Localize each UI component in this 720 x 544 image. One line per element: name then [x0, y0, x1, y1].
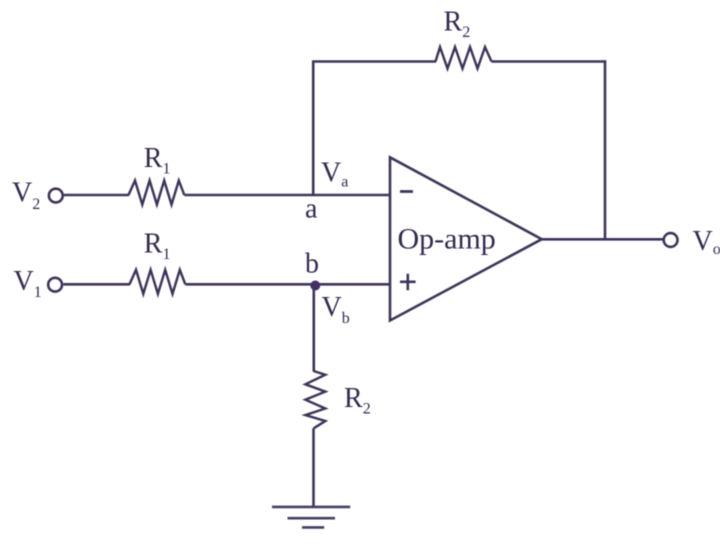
svg-text:V1: V1 [14, 266, 42, 301]
resistor R1 (top) [129, 181, 185, 205]
wire: R1 to non-inverting input [185, 283, 390, 286]
wire: node a up to feedback (vertical) [312, 62, 315, 196]
resistor R1 (bottom) [130, 270, 186, 294]
resistor R2 (feedback) [436, 47, 492, 69]
non-inverting input plus sign [400, 274, 416, 291]
wire: R2 to top-right corner [492, 60, 607, 63]
wire: node b down to R2 (vertical) [312, 286, 315, 372]
svg-text:a: a [305, 194, 318, 225]
wire: top-left horizontal to R2 [312, 60, 436, 63]
output wire [542, 238, 663, 241]
terminal V2 [49, 189, 63, 203]
ground [272, 507, 350, 528]
terminal Vo [664, 233, 678, 247]
wire: feedback down to output node (vertical) [604, 60, 607, 240]
inverting input minus sign [400, 190, 413, 193]
svg-text:R2: R2 [444, 7, 471, 42]
svg-text:V2: V2 [12, 178, 40, 214]
node b junction dot [310, 281, 320, 291]
svg-text:Vo: Vo [693, 226, 720, 258]
svg-text:R2: R2 [344, 383, 371, 418]
wire: V2 terminal to R1 [64, 194, 129, 197]
terminal V1 [48, 278, 62, 292]
wire: V1 terminal to R1 [63, 283, 130, 286]
svg-text:b: b [305, 249, 319, 280]
svg-text:R1: R1 [144, 229, 171, 264]
svg-text:Vb: Vb [322, 292, 350, 327]
svg-text:R1: R1 [144, 143, 171, 178]
svg-text:Op-amp: Op-amp [398, 222, 496, 255]
svg-text:Va: Va [321, 158, 348, 191]
wire: R1 to inverting input [184, 194, 390, 197]
op-amp U1 triangle [390, 157, 542, 320]
resistor R2 (grounded) [305, 371, 325, 428]
wire: R2 to ground [312, 428, 315, 507]
